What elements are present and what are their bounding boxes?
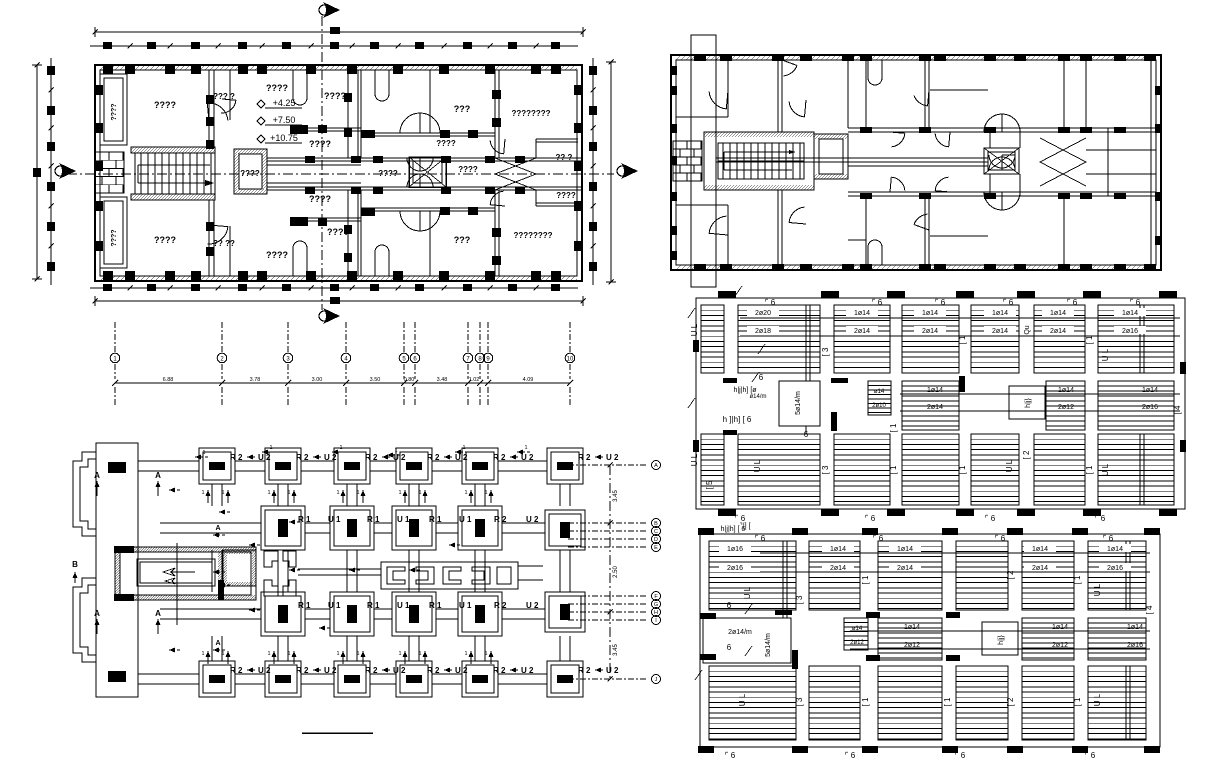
svg-text:[ 4: [ 4 [1145, 605, 1154, 614]
foundation grid bubble A [568, 464, 648, 466]
slab F lower bay 1 [709, 666, 796, 740]
slab E lower bay 2 [738, 434, 820, 505]
svg-text:U L: U L [743, 586, 752, 599]
slab F rebar labels upper band [719, 544, 751, 552]
svg-text:U 2: U 2 [393, 666, 406, 675]
svg-text:R 2: R 2 [494, 601, 507, 610]
svg-text:B: B [72, 560, 78, 569]
svg-text:U 1: U 1 [397, 515, 410, 524]
foundation beams to elevator pit [298, 568, 381, 570]
plan B elevator block [814, 134, 848, 179]
svg-text:2ø14: 2ø14 [922, 328, 938, 335]
slab F rebar long lines [760, 552, 1150, 554]
slab F lower bay 5 [1022, 666, 1074, 740]
svg-text:4.09: 4.09 [523, 377, 534, 383]
svg-text:6: 6 [759, 373, 764, 382]
svg-text:[ 1: [ 1 [958, 465, 967, 474]
svg-text:⌜ 6: ⌜ 6 [985, 514, 996, 523]
svg-text:1: 1 [356, 490, 359, 496]
svg-text:????: ???? [324, 91, 346, 101]
footing top-6 [547, 448, 583, 484]
svg-text:U 2: U 2 [526, 601, 539, 610]
foundation grid bubble I [568, 619, 648, 621]
svg-text:2ø14: 2ø14 [1050, 328, 1066, 335]
plan A left outer dimension line [36, 65, 38, 279]
plan B interior wall detail lines [848, 239, 866, 241]
svg-text:2ø14: 2ø14 [897, 565, 913, 572]
svg-text:????: ???? [556, 191, 576, 200]
svg-text:⌜ 6: ⌜ 6 [872, 298, 883, 307]
svg-text:????: ???? [266, 250, 288, 260]
svg-text:[ 2: [ 2 [1006, 570, 1015, 579]
svg-text:6: 6 [804, 430, 809, 439]
svg-text:2ø16: 2ø16 [1122, 328, 1138, 335]
footing row2-3 [392, 506, 436, 550]
svg-text:[ 1: [ 1 [861, 575, 870, 584]
hall slot door top [293, 70, 307, 105]
svg-text:2ø12: 2ø12 [1058, 404, 1074, 411]
svg-text:U 2: U 2 [258, 666, 271, 675]
svg-text:1: 1 [398, 651, 401, 657]
footing bottom-3 [334, 661, 370, 697]
svg-text:2ø16: 2ø16 [1127, 642, 1143, 649]
svg-text:1ø14: 1ø14 [922, 310, 938, 317]
svg-text:U L: U L [690, 453, 699, 466]
svg-text:1: 1 [524, 445, 527, 451]
svg-text:1: 1 [418, 490, 421, 496]
slab F vertical double lines bay1 [782, 541, 784, 618]
slab F lower bay 6 [1088, 666, 1146, 740]
plan B bottom wall hatch [676, 265, 681, 270]
plan B corridor walls right half [848, 127, 1156, 129]
svg-text:h|j|h] [ø: h|j|h] [ø [733, 387, 757, 394]
foundation tie beams bottom row [138, 673, 199, 675]
plan B top wall hatch [676, 55, 681, 60]
svg-text:2ø12: 2ø12 [850, 640, 864, 646]
svg-text:R 2: R 2 [493, 453, 506, 462]
svg-text:1: 1 [267, 490, 270, 496]
svg-text:⌜ 6: ⌜ 6 [1085, 751, 1096, 760]
foundation A section arrows [96, 481, 98, 496]
svg-text:h|j}: h|j} [998, 635, 1005, 645]
slab E left outside tick [688, 398, 695, 408]
svg-text:1: 1 [398, 490, 401, 496]
svg-text:2ø16: 2ø16 [1107, 565, 1123, 572]
grid axis 4 [345, 322, 347, 352]
svg-text:ø14: ø14 [874, 389, 885, 395]
svg-text:1ø14: 1ø14 [897, 546, 913, 553]
svg-text:A: A [94, 609, 100, 618]
section flag bottom [319, 308, 340, 324]
svg-text:3.50: 3.50 [370, 377, 381, 383]
svg-text:1: 1 [462, 445, 465, 451]
svg-text:⌜ 6: ⌜ 6 [735, 514, 746, 523]
wall x430 vertical bottom [429, 211, 431, 276]
small room wall x230 bottom [229, 226, 231, 276]
svg-text:2ø10: 2ø10 [872, 403, 886, 409]
slab F upper bay 1 [709, 541, 796, 610]
grid axis 7 [467, 322, 469, 352]
svg-text:[ 1: [ 1 [1073, 697, 1082, 706]
svg-text:1: 1 [287, 490, 290, 496]
svg-text:U 1: U 1 [397, 601, 410, 610]
foundation left strip footing [96, 443, 138, 697]
svg-text:2ø14: 2ø14 [1032, 565, 1048, 572]
svg-text:1: 1 [356, 651, 359, 657]
svg-text:2ø14: 2ø14 [927, 404, 943, 411]
svg-text:R 2: R 2 [230, 453, 243, 462]
svg-text:⌜ 6: ⌜ 6 [765, 298, 776, 307]
plan B interior columns corridor [860, 127, 872, 133]
slab E lower bay 1 [701, 434, 724, 505]
svg-text:+7.50: +7.50 [273, 115, 296, 125]
svg-text:[ 1: [ 1 [1073, 575, 1082, 584]
stair wall hatched bottom [131, 194, 215, 200]
svg-text:U 2: U 2 [455, 453, 468, 462]
slab E upper bay 6 [1034, 305, 1085, 373]
svg-text:???: ??? [454, 104, 471, 114]
grid axis 6 [414, 322, 416, 352]
grid axis 5 [403, 322, 405, 352]
slab F upper bay 4 [956, 541, 1008, 610]
svg-text:[ 1: [ 1 [889, 465, 898, 474]
plan B brick hatch entry [673, 141, 702, 181]
plan A left inner dimension line [50, 58, 52, 285]
svg-text:U L: U L [1093, 693, 1102, 706]
room slot door top x375 [375, 70, 389, 101]
slab E mid rebar lines [900, 393, 1180, 395]
corridor passage lines [267, 164, 361, 166]
svg-text:????: ???? [240, 169, 260, 178]
svg-text:1: 1 [484, 490, 487, 496]
svg-text:1ø14: 1ø14 [927, 387, 943, 394]
slab F diagonal ticks [745, 604, 752, 614]
footing row3-3 [392, 592, 436, 636]
svg-text:R 2: R 2 [494, 515, 507, 524]
vertical section line [321, 16, 323, 310]
svg-text:1: 1 [464, 490, 467, 496]
slab F mid-height black marks [866, 612, 880, 618]
svg-text:[ 3: [ 3 [821, 465, 830, 474]
svg-text:⌜ 6: ⌜ 6 [725, 751, 736, 760]
slab F lower bay 3 [878, 666, 942, 740]
svg-text:⌜ 6: ⌜ 6 [865, 514, 876, 523]
svg-text:[ 3: [ 3 [795, 697, 804, 706]
svg-text:1: 1 [336, 490, 339, 496]
svg-text:E: E [654, 545, 658, 551]
svg-text:2ø16: 2ø16 [1142, 404, 1158, 411]
svg-text:1: 1 [221, 651, 224, 657]
svg-text:2ø12: 2ø12 [1052, 642, 1068, 649]
wall y221 lower with column [290, 220, 361, 222]
corridor bottom wall [267, 189, 582, 191]
svg-text:⌜ 6: ⌜ 6 [873, 534, 884, 543]
svg-text:R 2: R 2 [578, 453, 591, 462]
door top-left room [207, 103, 228, 120]
plan B right vertical wall x1151 [1150, 60, 1152, 265]
svg-text:⌜ 6: ⌜ 6 [935, 298, 946, 307]
slab F upper bay 5 [1022, 541, 1074, 610]
plan B clover doors [984, 114, 1002, 132]
svg-text:A: A [94, 471, 100, 480]
slab F vertical lines right bay [1125, 541, 1127, 610]
plan B elevator X shaft [984, 148, 1019, 174]
slab E upper bay 1 [701, 305, 724, 373]
svg-text:U 1: U 1 [459, 601, 472, 610]
svg-text:0.80: 0.80 [404, 377, 415, 383]
svg-text:????: ???? [309, 194, 331, 204]
svg-text:5ø14/m: 5ø14/m [795, 391, 802, 415]
svg-text:1ø16: 1ø16 [727, 546, 743, 553]
svg-text:1: 1 [201, 490, 204, 496]
svg-text:3.78: 3.78 [250, 377, 261, 383]
svg-text:10: 10 [567, 357, 574, 363]
svg-text:R 1: R 1 [367, 601, 380, 610]
entry brick hatch [95, 152, 124, 193]
svg-text:1ø14: 1ø14 [854, 310, 870, 317]
wall y128 upper with column [290, 127, 361, 129]
right small rooms walls [536, 138, 578, 140]
svg-text:1ø14: 1ø14 [1058, 387, 1074, 394]
wall x348 vertical [347, 70, 349, 158]
footing row2-2 [330, 506, 374, 550]
plan B door arcs left rooms [709, 92, 726, 109]
stair wall hatched top [131, 147, 215, 153]
footing bottom-1 [199, 661, 235, 697]
svg-text:R 2: R 2 [427, 453, 440, 462]
svg-text:[ 3: [ 3 [821, 347, 830, 356]
plan A bottom outer dimension line [95, 300, 583, 302]
plan B interior verticals left half [727, 60, 729, 117]
svg-text:2ø14: 2ø14 [830, 565, 846, 572]
svg-text:1ø14: 1ø14 [1032, 546, 1048, 553]
svg-text:⌜ 6: ⌜ 6 [955, 751, 966, 760]
foundation arrows bottom row pads [207, 651, 209, 664]
svg-text:1: 1 [418, 651, 421, 657]
svg-text:????: ???? [378, 169, 398, 178]
plan B slot doors [868, 60, 882, 85]
foundation beam junction cross [264, 551, 278, 567]
slab E black marks middle band [831, 378, 848, 383]
slab E rebar labels upper band [747, 308, 779, 316]
svg-text:6: 6 [727, 601, 732, 610]
svg-text:R 2: R 2 [578, 666, 591, 675]
svg-text:U 2: U 2 [606, 453, 619, 462]
svg-text:1: 1 [336, 651, 339, 657]
footing top-2 [265, 448, 301, 484]
stair treads [135, 153, 215, 194]
svg-text:R 1: R 1 [429, 515, 442, 524]
footing row2-1 [261, 506, 305, 550]
svg-text:U 2: U 2 [324, 453, 337, 462]
svg-text:U 2: U 2 [393, 453, 406, 462]
grid axis 10 [569, 322, 571, 352]
plan B stair treads [718, 143, 804, 179]
svg-text:2ø20: 2ø20 [755, 310, 771, 317]
plan A columns right wall [574, 85, 583, 95]
svg-text:????: ???? [309, 139, 331, 149]
room slot door bottom x375 [375, 245, 389, 276]
svg-text:R 1: R 1 [429, 601, 442, 610]
svg-text:[ 2: [ 2 [1006, 697, 1015, 706]
svg-text:2.50: 2.50 [613, 566, 619, 578]
footing row2-5 [545, 510, 585, 550]
slab F upper bay 3 [878, 541, 942, 610]
grid axis 2 [221, 322, 223, 352]
plan B funnel door swings [1040, 138, 1086, 186]
footing bottom-4 [396, 661, 432, 697]
footing row3-2 [330, 592, 374, 636]
svg-text:⌜ 6: ⌜ 6 [1067, 298, 1078, 307]
svg-text:?? ?: ?? ? [556, 153, 573, 162]
slab E diagonal tick top left [735, 286, 742, 296]
svg-text:⌝|‍] [: ⌝|‍] [ [740, 522, 751, 530]
svg-text:????: ???? [458, 165, 478, 174]
plan B right side room walls [1063, 60, 1065, 128]
svg-text:[ 3: [ 3 [795, 595, 804, 604]
stair arrows [138, 164, 210, 166]
plan A outer wall [95, 65, 582, 281]
svg-text:1ø14: 1ø14 [830, 546, 846, 553]
svg-text:2ø14: 2ø14 [854, 328, 870, 335]
svg-text:U L: U L [738, 693, 747, 706]
foundation stair arrows [163, 568, 175, 576]
svg-text:????: ???? [154, 235, 176, 245]
slab E lower bay 7 [1098, 434, 1174, 505]
balcony top-left [100, 74, 127, 145]
grid axis 9 [487, 322, 489, 352]
svg-text:1: 1 [267, 651, 270, 657]
svg-text:Qu: Qu [1024, 325, 1031, 334]
svg-text:R 2: R 2 [427, 666, 440, 675]
svg-text:U L: U L [1005, 459, 1014, 472]
slab E stair opening [779, 381, 820, 426]
svg-text:????: ???? [111, 103, 118, 120]
svg-text:A: A [215, 640, 220, 647]
door small room [221, 100, 236, 113]
foundation grid bubble E [568, 546, 648, 548]
svg-text:U 1: U 1 [328, 601, 341, 610]
slab E left edge marks [693, 340, 699, 352]
foundation stair flight inner [137, 559, 215, 586]
svg-text:R 2: R 2 [296, 666, 309, 675]
foundation grid bubble D [568, 538, 648, 540]
plan B stair outer walls hatched [704, 132, 814, 190]
slab F outer boundary [700, 534, 1160, 747]
slab E upper bay 2 [738, 305, 820, 373]
svg-text:3.45: 3.45 [613, 644, 619, 656]
plan B columns on outer walls [694, 54, 706, 61]
svg-text:[ 1: [ 1 [1085, 465, 1094, 474]
wall x430 vertical top [429, 70, 431, 133]
foundation grid bubble J [568, 678, 648, 680]
plan A columns bottom wall [103, 271, 113, 281]
elevator lobby walls y133 y211 [361, 132, 495, 134]
svg-text:3.48: 3.48 [437, 377, 448, 383]
svg-text:1ø14: 1ø14 [1107, 546, 1123, 553]
svg-text:5ø14/m: 5ø14/m [765, 633, 772, 657]
svg-text:1ø14: 1ø14 [1052, 624, 1068, 631]
svg-text:3.45: 3.45 [613, 490, 619, 502]
grid axis 3 [287, 322, 289, 352]
plan B room walls horizontals left [676, 116, 728, 118]
svg-text:????: ???? [266, 83, 288, 93]
foundation stair right cell [223, 550, 256, 586]
foundation arrows horizontal top [195, 456, 208, 458]
svg-text:????????: ???????? [513, 231, 552, 240]
svg-text:R 1: R 1 [367, 515, 380, 524]
plan A inner top dimension line with column marks [90, 45, 578, 47]
slab F black columns top edge [698, 528, 714, 535]
svg-text:A: A [155, 609, 161, 618]
plan A right outer dimension line [610, 62, 612, 282]
svg-text:U 2: U 2 [324, 666, 337, 675]
plan A top wall hatch [100, 65, 105, 70]
svg-text:A: A [654, 463, 658, 469]
svg-text:+4.25: +4.25 [273, 98, 296, 108]
svg-text:[ 1: [ 1 [958, 335, 967, 344]
foundation tie beams top row [138, 460, 199, 462]
svg-text:A: A [155, 471, 161, 480]
plan B columns left right walls [671, 66, 677, 75]
svg-text:U 2: U 2 [455, 666, 468, 675]
door bottom-left room [207, 227, 228, 244]
plan A columns top wall [103, 64, 113, 74]
svg-text:1: 1 [484, 651, 487, 657]
slab E black columns top edge [718, 291, 736, 298]
svg-text:ø14/m: ø14/m [749, 394, 766, 400]
foundation arrows horizontal scattered [169, 489, 180, 491]
grid axis 8 [479, 322, 481, 352]
foundation grid bubble G [568, 603, 648, 605]
slab F mid rebar lines [850, 630, 1150, 632]
svg-text:h ]|h] [ 6: h ]|h] [ 6 [723, 415, 752, 424]
plan B door arcs mid rooms [783, 66, 797, 76]
slab E upper bay 3 [834, 305, 890, 373]
plan B corridor passage lines [716, 157, 988, 159]
slab E upper bay 7 [1098, 305, 1174, 373]
svg-text:U L: U L [1101, 463, 1110, 476]
slab E vertical double lines bay1 [805, 305, 807, 381]
hall slot door bottom [293, 241, 307, 276]
svg-text:⌜ 6: ⌜ 6 [1003, 298, 1014, 307]
plan A bottom wall hatch [100, 276, 105, 281]
elevator shaft [409, 157, 446, 187]
footing row3-5 [545, 592, 585, 632]
svg-text:2ø14/m: 2ø14/m [728, 629, 752, 636]
svg-text:2ø12: 2ø12 [904, 642, 920, 649]
clover doors bottom [420, 211, 440, 231]
foundation right grid line [609, 465, 611, 680]
scale bar [302, 732, 373, 734]
slab F upper bay 6 [1088, 541, 1146, 610]
foundation arrows top row pads [207, 490, 209, 503]
svg-text:[ 1: [ 1 [889, 423, 898, 432]
footing top-5 [462, 448, 498, 484]
svg-text:1ø14: 1ø14 [904, 624, 920, 631]
svg-text:2ø14: 2ø14 [992, 328, 1008, 335]
svg-text:U L: U L [1101, 348, 1110, 361]
footing top-1 [199, 448, 235, 484]
slab F lower bay 4 [956, 666, 1008, 740]
svg-text:???: ??? [454, 235, 471, 245]
svg-text:[ 1: [ 1 [861, 697, 870, 706]
svg-text:U 1: U 1 [459, 515, 472, 524]
svg-text:1ø14: 1ø14 [992, 310, 1008, 317]
plan B outer walls [671, 55, 1161, 270]
slab F lower bay 2 [809, 666, 860, 740]
svg-text:1: 1 [287, 651, 290, 657]
